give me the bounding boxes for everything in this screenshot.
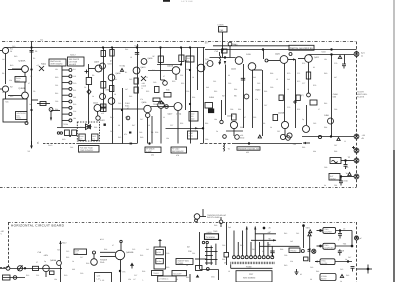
svg-text:R86: R86 bbox=[302, 146, 305, 149]
svg-text:SOC ASSEM: SOC ASSEM bbox=[243, 277, 256, 280]
svg-text:C99: C99 bbox=[205, 138, 208, 141]
svg-text:R56: R56 bbox=[180, 122, 183, 125]
transistor Q426 bbox=[328, 118, 334, 124]
triangle mark bbox=[308, 233, 311, 236]
svg-text:Q41: Q41 bbox=[205, 58, 209, 61]
tick marks bbox=[352, 147, 355, 149]
label C424 bbox=[209, 96, 215, 99]
pin row wires bbox=[62, 69, 72, 122]
node circle cross bbox=[165, 105, 169, 109]
connector J428 bbox=[354, 158, 359, 163]
svg-text:DL40: DL40 bbox=[48, 144, 52, 147]
wire stub to switch bbox=[159, 239, 161, 247]
mid rail dashes bbox=[200, 143, 232, 145]
svg-text:TRIG PICKOFF: TRIG PICKOFF bbox=[80, 149, 94, 152]
node dot bus bbox=[224, 57, 226, 59]
triangle delta mid bbox=[120, 69, 123, 72]
svg-text:COUPLING: COUPLING bbox=[324, 247, 334, 250]
svg-text:ADJ: ADJ bbox=[16, 80, 20, 83]
transistor Q416 bbox=[235, 57, 243, 65]
comp box x226 bbox=[224, 253, 229, 258]
label R2 bbox=[10, 86, 13, 89]
transistor Q405 bbox=[141, 59, 147, 65]
svg-text:C39: C39 bbox=[284, 254, 287, 257]
ground bottom bbox=[196, 275, 200, 278]
wire vertical x262 bbox=[262, 70, 264, 136]
svg-text:Q416: Q416 bbox=[231, 68, 237, 71]
svg-text:R31: R31 bbox=[80, 126, 83, 129]
dot left b2 bbox=[320, 245, 322, 247]
ground symbol bbox=[130, 263, 134, 266]
box C440 bbox=[189, 112, 198, 122]
svg-text:10k: 10k bbox=[54, 278, 57, 281]
svg-text:R40: R40 bbox=[284, 264, 287, 267]
triangle mark bbox=[340, 275, 343, 278]
svg-text:15: 15 bbox=[276, 78, 278, 81]
svg-text:TERM: TERM bbox=[63, 123, 69, 126]
svg-text:R21: R21 bbox=[73, 89, 76, 92]
attenuator parts bbox=[37, 103, 50, 105]
svg-text:TP4060: TP4060 bbox=[290, 249, 296, 252]
wire pair left bbox=[100, 251, 116, 253]
node dot bbox=[345, 160, 347, 162]
junction cross bbox=[85, 71, 89, 73]
diode CR410 bbox=[141, 76, 146, 81]
resistor box R439 bbox=[101, 51, 106, 57]
svg-text:C44: C44 bbox=[110, 130, 113, 133]
wire rail y136.5 bbox=[302, 136, 354, 138]
small box LF bbox=[101, 107, 107, 112]
text blob bottom left bbox=[100, 238, 104, 241]
svg-text:C67: C67 bbox=[264, 104, 267, 107]
svg-text:VALUES: VALUES bbox=[69, 63, 77, 66]
MAG box bbox=[196, 266, 203, 271]
svg-text:6k8: 6k8 bbox=[186, 68, 189, 71]
svg-text:Q406B: Q406B bbox=[167, 65, 174, 68]
label Q409 bbox=[94, 61, 100, 64]
svg-text:TP: TP bbox=[348, 156, 351, 159]
connector J4060 bbox=[354, 236, 358, 240]
svg-text:C95: C95 bbox=[253, 116, 256, 119]
svg-text:C85: C85 bbox=[313, 122, 316, 125]
svg-text:C87: C87 bbox=[334, 144, 337, 147]
svg-text:Q410: Q410 bbox=[141, 66, 147, 69]
small box right bbox=[310, 100, 317, 105]
svg-text:R18: R18 bbox=[86, 262, 89, 265]
transistor Q408A bbox=[108, 74, 115, 81]
node dot bbox=[24, 268, 26, 270]
attenuator inner text box bbox=[16, 112, 28, 120]
transistor Q403A bbox=[2, 47, 8, 53]
svg-text:22k: 22k bbox=[290, 260, 293, 263]
wire left vertical x199 bbox=[199, 232, 201, 269]
bottom board dashed border top bbox=[8, 222, 357, 224]
corner box partial bbox=[95, 273, 112, 282]
wire to Q420 bbox=[268, 60, 280, 62]
label TRIGGER COUPLING bbox=[207, 214, 227, 219]
svg-text:1k5: 1k5 bbox=[290, 240, 293, 243]
svg-text:22k: 22k bbox=[9, 79, 12, 82]
svg-text:10: 10 bbox=[130, 56, 132, 59]
svg-text:R88: R88 bbox=[334, 150, 337, 153]
svg-text:C73: C73 bbox=[287, 106, 290, 109]
label C? bbox=[224, 262, 226, 265]
svg-text:R36: R36 bbox=[240, 244, 243, 247]
svg-text:R98: R98 bbox=[240, 126, 243, 129]
transistor Q482 bbox=[43, 265, 50, 272]
svg-text:47k: 47k bbox=[255, 98, 258, 101]
wire sub-top second bbox=[213, 45, 289, 47]
box above border right bbox=[329, 174, 340, 181]
svg-text:82: 82 bbox=[313, 66, 315, 69]
labels inside bbox=[80, 135, 97, 141]
cap bars bbox=[308, 249, 311, 251]
node dot bbox=[119, 270, 121, 272]
svg-text:Q408: Q408 bbox=[116, 72, 122, 75]
wire into pickoff bbox=[88, 102, 90, 124]
wire stub right bbox=[101, 107, 105, 109]
svg-text:bJ-5: bJ-5 bbox=[100, 238, 104, 241]
pot circle mid2 bbox=[244, 94, 249, 99]
svg-text:C6: C6 bbox=[30, 75, 32, 78]
svg-text:SOURCE: SOURCE bbox=[324, 231, 332, 234]
svg-text:22: 22 bbox=[163, 116, 165, 119]
svg-text:Q434B: Q434B bbox=[278, 112, 285, 115]
svg-text:GND: GND bbox=[344, 180, 349, 183]
cluster box C424 bbox=[205, 103, 213, 109]
svg-text:2M: 2M bbox=[187, 246, 190, 249]
svg-text:Q412: Q412 bbox=[93, 102, 99, 105]
small circle right bbox=[301, 250, 304, 253]
pickoff diode pair bbox=[86, 124, 92, 130]
box mid bbox=[164, 93, 171, 98]
triangle delta3 bbox=[338, 56, 341, 59]
top board dashed border right bbox=[356, 42, 358, 189]
wire base left bbox=[298, 58, 305, 60]
svg-text:A21: A21 bbox=[361, 52, 365, 55]
svg-text:GND: GND bbox=[240, 137, 245, 140]
svg-text:33: 33 bbox=[176, 278, 178, 281]
transistor Q414 bbox=[144, 105, 151, 112]
svg-text:R6: R6 bbox=[234, 95, 236, 98]
svg-text:R2: R2 bbox=[222, 95, 224, 98]
black dot top bbox=[303, 225, 305, 227]
dot left b1 bbox=[320, 230, 322, 232]
svg-text:R12: R12 bbox=[10, 95, 13, 98]
svg-text:C40: C40 bbox=[12, 45, 15, 48]
svg-text:R16: R16 bbox=[66, 256, 69, 259]
label +18 bbox=[10, 48, 13, 54]
label above comb bbox=[213, 230, 218, 233]
wire base bus y57.5 bbox=[210, 57, 236, 59]
svg-text:455: 455 bbox=[246, 151, 249, 154]
wire right b2 bbox=[335, 245, 352, 247]
svg-text:μF: μF bbox=[360, 237, 363, 240]
node dot bbox=[331, 54, 333, 56]
pin circles bbox=[202, 241, 204, 243]
svg-text:C89: C89 bbox=[324, 166, 327, 169]
svg-text:Q406: Q406 bbox=[142, 101, 148, 104]
transistor Q412 bbox=[94, 105, 101, 112]
comb long line 1 bbox=[246, 227, 248, 256]
svg-text:R20: R20 bbox=[64, 274, 67, 277]
resistor box R440b bbox=[101, 82, 106, 89]
svg-text:120: 120 bbox=[73, 75, 76, 78]
svg-text:B40: B40 bbox=[10, 64, 13, 67]
node A circle bbox=[49, 108, 53, 112]
label Q416 bbox=[231, 68, 237, 71]
box TP below bbox=[152, 271, 164, 276]
svg-text:R452: R452 bbox=[189, 135, 193, 138]
svg-text:C48: C48 bbox=[38, 251, 41, 254]
svg-text:HORIZ: HORIZ bbox=[330, 177, 336, 180]
wire vertical x225 bbox=[225, 65, 227, 116]
label Yo bbox=[346, 172, 349, 175]
arrowhead down bbox=[309, 249, 311, 253]
svg-text:R22: R22 bbox=[26, 274, 29, 277]
bold mode box bbox=[205, 234, 219, 240]
wire Q415 emitter bbox=[160, 108, 162, 143]
svg-text:C37: C37 bbox=[252, 248, 255, 251]
svg-text:R55: R55 bbox=[146, 90, 149, 93]
wire vertical x60 bbox=[60, 241, 62, 261]
input coupling box above border bbox=[219, 27, 228, 33]
transistor Q406A bbox=[174, 103, 182, 111]
switch ladder rail1 bbox=[206, 244, 208, 265]
svg-text:C33: C33 bbox=[55, 100, 58, 103]
svg-text:R52: R52 bbox=[181, 82, 184, 85]
svg-text:47: 47 bbox=[112, 244, 114, 247]
svg-text:R9: R9 bbox=[92, 74, 94, 77]
svg-text:5k6: 5k6 bbox=[287, 78, 290, 81]
svg-text:C27: C27 bbox=[134, 274, 137, 277]
label +15 bbox=[5, 101, 9, 104]
svg-text:C43: C43 bbox=[100, 108, 103, 111]
svg-text:R42: R42 bbox=[284, 232, 287, 235]
svg-text:R34: R34 bbox=[55, 108, 58, 111]
transistor Q418 bbox=[248, 63, 256, 71]
svg-text:Q4044: Q4044 bbox=[50, 259, 57, 262]
svg-text:VERT BOARD: VERT BOARD bbox=[50, 63, 63, 66]
label Q4044 bbox=[50, 259, 57, 262]
trig coupling box bbox=[323, 243, 335, 249]
svg-text:X1: X1 bbox=[28, 150, 31, 153]
svg-text:033: 033 bbox=[333, 96, 337, 99]
svg-text:1 4 7 9 11 40: 1 4 7 9 11 40 bbox=[181, 0, 193, 3]
bus node dots bbox=[102, 47, 103, 48]
svg-text:GND: GND bbox=[100, 261, 105, 264]
wire y64.5 bbox=[157, 64, 181, 66]
diode CR420 bbox=[87, 90, 91, 95]
svg-text:2k: 2k bbox=[270, 126, 272, 129]
wire out rail y54 bbox=[309, 54, 355, 56]
transistor Q407A bbox=[100, 63, 106, 69]
transistor Q434A bbox=[230, 121, 237, 128]
svg-text:9-73Ω: 9-73Ω bbox=[120, 65, 126, 68]
svg-text:R42: R42 bbox=[100, 92, 103, 95]
svg-text:C410: C410 bbox=[125, 102, 130, 105]
wire vertical x263 top bbox=[263, 50, 265, 60]
resistor box R441 bbox=[110, 50, 114, 57]
svg-text:+5 VOLT: +5 VOLT bbox=[172, 148, 180, 151]
svg-text:+15V: +15V bbox=[321, 51, 326, 54]
svg-text:R70: R70 bbox=[287, 72, 290, 75]
svg-text:R50: R50 bbox=[172, 80, 175, 83]
transistor Q417B bbox=[207, 61, 213, 67]
svg-text:C57: C57 bbox=[170, 124, 173, 127]
svg-text:R94: R94 bbox=[238, 108, 241, 111]
bottom board dashed step left bbox=[0, 267, 8, 269]
label +15V bbox=[321, 51, 326, 54]
wire stub bbox=[88, 64, 90, 78]
label 47 bbox=[107, 60, 113, 66]
svg-text:47: 47 bbox=[28, 82, 30, 85]
svg-text:C51: C51 bbox=[180, 74, 183, 77]
inductor L416 bbox=[220, 56, 221, 64]
node dot bbox=[340, 176, 342, 178]
svg-text:STABIL: STABIL bbox=[321, 275, 327, 278]
svg-text:HORIZONTAL CIRCUIT BOARD: HORIZONTAL CIRCUIT BOARD bbox=[11, 224, 65, 228]
capacitor C407 bbox=[135, 52, 139, 54]
wire right b3 bbox=[335, 261, 352, 263]
svg-text:5p6: 5p6 bbox=[125, 116, 128, 119]
page top faint text bbox=[181, 0, 193, 3]
node dot2 bbox=[149, 143, 151, 145]
svg-text:1k: 1k bbox=[10, 50, 12, 53]
mid rail solid bbox=[232, 143, 302, 145]
svg-text:+24V: +24V bbox=[62, 242, 67, 245]
ref box partial A8 banner bbox=[289, 45, 314, 50]
svg-text:10-7: 10-7 bbox=[205, 42, 210, 45]
svg-text:- C7: - C7 bbox=[339, 235, 343, 238]
svg-text:NORM: NORM bbox=[156, 260, 162, 263]
label Q404A bbox=[19, 60, 26, 63]
svg-text:R8: R8 bbox=[2, 72, 4, 75]
input coupling label bbox=[218, 24, 224, 33]
feedthrough C401 on border bbox=[228, 42, 232, 46]
margin tiny text bbox=[1, 230, 4, 236]
svg-text:TM: TM bbox=[57, 249, 60, 252]
node dot bbox=[121, 109, 122, 110]
resistor box R445 bbox=[134, 78, 138, 84]
label C450 bbox=[333, 93, 339, 99]
ref box +15 MAT bbox=[79, 146, 100, 153]
svg-text:P4060: P4060 bbox=[246, 265, 251, 268]
transistor Q424 bbox=[303, 126, 310, 133]
svg-text:C71: C71 bbox=[297, 72, 300, 75]
resistor box R468 bbox=[273, 115, 278, 121]
svg-text:⊥: ⊥ bbox=[142, 279, 144, 282]
annotation speckle labels bbox=[2, 45, 348, 187]
svg-text:R32: R32 bbox=[186, 276, 189, 279]
transistor Q410 bbox=[133, 67, 140, 74]
comb pin circles bbox=[233, 256, 236, 259]
label +5 bbox=[228, 148, 231, 151]
connector J440 bbox=[354, 174, 359, 179]
svg-text:25: 25 bbox=[35, 50, 38, 53]
box lower bbox=[3, 275, 11, 280]
connector J422 bbox=[354, 52, 359, 57]
svg-text:C20: C20 bbox=[73, 82, 76, 85]
wire stub pot bbox=[160, 62, 162, 80]
label R460 bbox=[256, 89, 262, 92]
arrow to delay line bbox=[31, 141, 33, 148]
svg-text:R26: R26 bbox=[140, 254, 143, 257]
svg-text:C83: C83 bbox=[334, 108, 337, 111]
svg-text:R24: R24 bbox=[104, 248, 107, 251]
resistor box R462 bbox=[279, 95, 283, 101]
svg-text:2k2: 2k2 bbox=[146, 248, 149, 251]
capacitor C401 bbox=[30, 50, 34, 52]
svg-text:C46: C46 bbox=[118, 102, 121, 105]
cluster marks low bbox=[101, 104, 107, 108]
label Q406A bbox=[168, 113, 183, 116]
svg-text:C53: C53 bbox=[186, 90, 189, 93]
svg-text:10k: 10k bbox=[166, 137, 169, 140]
black dot mark bbox=[69, 135, 71, 137]
svg-text:R60: R60 bbox=[205, 62, 208, 65]
svg-text:3k3: 3k3 bbox=[206, 86, 209, 89]
resistor box R470 bbox=[306, 72, 310, 79]
svg-text:C17: C17 bbox=[80, 256, 83, 259]
svg-text:C45: C45 bbox=[340, 268, 343, 271]
svg-text:+20V: +20V bbox=[306, 227, 311, 230]
junction circle bbox=[206, 268, 209, 271]
TP cross bbox=[293, 101, 297, 103]
comb short lines bbox=[233, 231, 235, 256]
svg-text:2K: 2K bbox=[269, 227, 272, 230]
svg-text:C450: C450 bbox=[333, 93, 339, 96]
transistor Q407B bbox=[100, 94, 106, 100]
svg-text:Q407: Q407 bbox=[168, 113, 174, 116]
tag wire 3 bbox=[260, 245, 300, 247]
label TP bbox=[28, 141, 40, 153]
svg-text:33k: 33k bbox=[313, 150, 316, 153]
svg-text:C48: C48 bbox=[139, 131, 142, 134]
label +15 right bbox=[362, 134, 366, 140]
box SWP CAL bbox=[74, 249, 87, 255]
svg-text:R32: R32 bbox=[87, 126, 90, 129]
label 25 bbox=[35, 50, 38, 53]
wire emitter Q418 down bbox=[252, 70, 254, 128]
svg-text:2k7: 2k7 bbox=[125, 88, 128, 91]
page edge line upper bbox=[393, 0, 395, 150]
pot stem bbox=[93, 254, 95, 259]
wire vertical x160 bbox=[160, 48, 162, 65]
wire bottom rail dashed part bbox=[43, 143, 77, 145]
wire stub left edge bbox=[0, 50, 2, 52]
svg-text:93Ω: 93Ω bbox=[62, 138, 66, 141]
svg-text:AUTO: AUTO bbox=[156, 251, 161, 254]
triangle delta2 bbox=[258, 135, 261, 138]
svg-text:Sect 2: Sect 2 bbox=[70, 54, 77, 57]
label +20V bbox=[306, 227, 311, 230]
svg-text:DL: DL bbox=[37, 141, 40, 144]
svg-text:+15: +15 bbox=[362, 134, 366, 137]
svg-text:Yo: Yo bbox=[345, 258, 347, 261]
svg-text:2k: 2k bbox=[92, 95, 94, 98]
wire stub bbox=[200, 216, 206, 218]
svg-text:C49: C49 bbox=[153, 81, 156, 84]
svg-text:C4: C4 bbox=[84, 86, 86, 89]
labels +15 GND bbox=[240, 134, 245, 140]
svg-text:5k: 5k bbox=[186, 264, 188, 267]
wire arm bbox=[32, 99, 39, 101]
svg-text:C44: C44 bbox=[70, 146, 73, 149]
ref box +5 VOLT bbox=[171, 147, 187, 153]
svg-text:B1: B1 bbox=[125, 71, 127, 74]
svg-text:C415: C415 bbox=[246, 53, 252, 56]
